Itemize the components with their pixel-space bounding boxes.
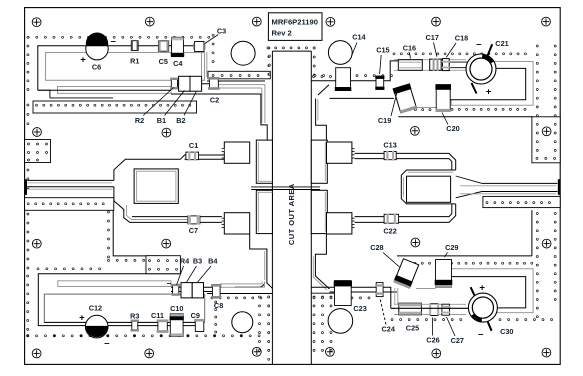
svg-text:C2: C2 [210, 96, 219, 105]
svg-text:C29: C29 [445, 243, 458, 252]
svg-text:C7: C7 [189, 226, 198, 235]
via col left border 2 [27, 104, 29, 106]
capacitor C22 [384, 214, 399, 223]
bead B1 [179, 76, 190, 91]
svg-text:C26: C26 [426, 336, 439, 345]
trace gate bar upper-left [256, 140, 272, 183]
capacitor C4 [172, 37, 184, 56]
trace splitter lower gray [127, 205, 201, 220]
output edge pad [558, 179, 560, 195]
svg-text:R1: R1 [130, 56, 139, 65]
trace block upper-left [224, 142, 249, 163]
cut out area top edge [272, 50, 311, 52]
wire C22 line [355, 216, 449, 218]
capacitor C23 body [335, 281, 352, 306]
tooling hole H20 [542, 348, 551, 357]
svg-text:C22: C22 [383, 226, 396, 235]
wire R2-B1-B2-C2 [171, 83, 209, 85]
svg-text:C12: C12 [89, 304, 102, 313]
capacitor C10 [170, 314, 183, 337]
svg-text:C4: C4 [173, 59, 183, 68]
tooling hole H19 [432, 349, 441, 358]
capacitor C17 [430, 59, 442, 70]
tooling hole H5 [432, 17, 441, 26]
svg-text:–: – [104, 338, 109, 349]
tooling hole H2 [145, 17, 154, 26]
trace block upper-right [327, 142, 352, 163]
tooling hole H9 [411, 126, 420, 135]
trace band C16 row [394, 59, 466, 61]
tooling hole H7 [33, 128, 42, 137]
tooling hole H8 [162, 128, 171, 137]
capacitor C6 [86, 38, 108, 60]
wire C13 corner [449, 153, 456, 170]
capacitor C5 [158, 41, 168, 51]
capacitor C29 [436, 260, 452, 288]
svg-text:B3: B3 [193, 257, 202, 266]
via col right edge 1 [536, 45, 538, 47]
cut out area left edge [271, 51, 273, 364]
capacitor C12 [85, 315, 108, 338]
trace combiner gray [403, 172, 453, 197]
trace block lower-left [224, 213, 249, 234]
trace band C25 row [394, 303, 466, 305]
trace narrow bias line bottom [58, 281, 171, 287]
tooling hole H12 [162, 239, 171, 248]
svg-text:B1: B1 [157, 116, 166, 125]
via dots box right-top [536, 157, 538, 159]
wire C9 up [204, 294, 206, 322]
capacitor C26 [430, 304, 438, 316]
cut out area right edge [310, 51, 312, 364]
svg-text:C21: C21 [495, 39, 508, 48]
trace splitter lower arm [114, 187, 222, 223]
device strap across cutout [251, 186, 320, 188]
via fence rect input-bottom [25, 198, 114, 211]
trace bias loop outer TR [451, 62, 533, 106]
svg-text:C11: C11 [151, 311, 164, 320]
C18 leader [446, 43, 456, 57]
svg-text:+: + [80, 54, 86, 65]
trace bias loop inner BR [450, 277, 526, 308]
via cols center-bottom left [259, 296, 261, 298]
via col cutout-left-top [268, 55, 270, 57]
wire C3 to C2 column [201, 52, 203, 77]
capacitor C28 [393, 258, 419, 289]
svg-text:+: + [79, 313, 85, 324]
svg-text:C13: C13 [383, 140, 396, 149]
trace bottom-left pour [44, 294, 204, 322]
C24 leader [380, 299, 386, 325]
C26 leader [432, 318, 434, 336]
capacitor C3 [195, 42, 204, 52]
via cols center-bottom right [313, 296, 315, 298]
svg-text:C8: C8 [214, 301, 223, 310]
fence box right-top [532, 117, 560, 163]
svg-text:B2: B2 [176, 116, 185, 125]
via row top-left [27, 36, 29, 38]
tooling hole H17 [252, 347, 261, 356]
via row center-top [267, 47, 269, 49]
tooling hole H10 [542, 127, 551, 136]
trace gate bar lower-left [256, 190, 272, 233]
svg-text:R3: R3 [130, 311, 139, 320]
trace output taper [456, 176, 482, 198]
capacitor C24 [376, 283, 383, 297]
capacitor row wire bottom-right [391, 307, 469, 309]
trace C19-C20 gray [412, 107, 436, 109]
C3 leader [205, 35, 219, 44]
part number box [268, 13, 322, 41]
via col right edge 2 [554, 45, 556, 47]
wire C24 down [383, 287, 391, 308]
svg-text:–: – [476, 39, 481, 50]
trace gate pad lower-left leadin [264, 251, 266, 280]
svg-text:MRF6P21190: MRF6P21190 [272, 17, 318, 26]
capacitor C21 [466, 54, 496, 84]
wire top-right gate [310, 80, 312, 82]
tooling hole H18 [326, 347, 335, 356]
wire bias pad to C19 [330, 97, 395, 99]
svg-text:C15: C15 [376, 46, 389, 55]
C27 leader [447, 317, 456, 336]
via row right of C14 [314, 75, 316, 77]
trace input line [27, 179, 114, 181]
trace splitter hole [134, 169, 178, 204]
mount circle bottom-left [232, 312, 253, 333]
trace combiner ring inner [407, 176, 451, 202]
svg-text:C19: C19 [378, 116, 391, 125]
svg-text:+: + [486, 86, 492, 97]
capacitor C14 body [336, 68, 351, 89]
via col left border [27, 36, 29, 38]
capacitor C15 [376, 76, 384, 89]
resistor R3 [132, 321, 138, 331]
svg-text:C17: C17 [426, 33, 439, 42]
tooling hole H15 [32, 349, 41, 358]
via row below C20 [451, 108, 453, 110]
tooling hole H1 [32, 18, 41, 27]
via row center-bottom right [313, 297, 315, 299]
capacitor C9 [195, 320, 204, 332]
via col left lower [27, 169, 29, 171]
ground line below C20 row [398, 116, 533, 118]
svg-text:C30: C30 [500, 327, 513, 336]
via circle-box bottom-left [215, 301, 217, 303]
B3 leader [187, 266, 197, 282]
mount circle top-left [231, 41, 255, 65]
trace drain bar upper-right [311, 140, 327, 183]
trace pad lower-right [315, 234, 329, 289]
trace gate pad upper-right [316, 99, 327, 141]
resistor R4 [173, 285, 179, 295]
svg-text:R4: R4 [180, 257, 190, 266]
capacitor C19 [393, 83, 418, 113]
bead B4 [192, 283, 203, 298]
svg-text:–: – [478, 329, 483, 340]
trace C8 band [220, 283, 262, 285]
via row bottom-left [27, 335, 29, 337]
tooling hole H14 [542, 239, 551, 248]
svg-text:C16: C16 [403, 43, 416, 52]
capacitor C27 [442, 304, 450, 315]
via fence box left-mid [25, 140, 51, 163]
via row bottom splitter fence [37, 268, 39, 270]
wire C14 row [311, 80, 335, 82]
resistor R2 [171, 79, 177, 89]
B1 leader [165, 91, 185, 116]
tooling hole H13 [411, 238, 420, 247]
via col right edge lower 2 [554, 213, 556, 215]
svg-text:R2: R2 [135, 116, 144, 125]
svg-text:C5: C5 [159, 57, 168, 66]
svg-text:Rev 2: Rev 2 [272, 28, 292, 37]
ground boundary bottom-left [113, 210, 160, 256]
trace narrow gate bias line [58, 87, 172, 94]
svg-text:C23: C23 [353, 304, 366, 313]
wire in narrow trace bottom [167, 283, 171, 285]
node step under C6 area [38, 90, 113, 98]
capacitor C14 circle [328, 41, 352, 65]
capacitor C25 [399, 303, 422, 315]
R4 leader [177, 266, 184, 285]
bead B2 [190, 76, 202, 91]
svg-text:C27: C27 [451, 336, 464, 345]
ground boundary right-bottom [311, 292, 336, 294]
R2 leader [143, 88, 173, 116]
trace output gray [460, 185, 556, 187]
via row bottom-right low [391, 319, 393, 321]
C29 leader [445, 253, 448, 258]
capacitor C2 [209, 78, 218, 89]
wire C22 corner [449, 204, 456, 222]
svg-text:C9: C9 [191, 311, 200, 320]
wire C23 row [311, 286, 334, 288]
C15 leader [380, 55, 382, 74]
wire R4-B3-B4 [171, 286, 212, 288]
wire C18 to C21 [449, 61, 467, 63]
via row pads top [313, 76, 315, 78]
capacitor C16 [398, 60, 422, 71]
C28 leader [383, 253, 400, 268]
via col left bottom [27, 275, 29, 277]
svg-text:C18: C18 [455, 34, 468, 43]
capacitor C30 [468, 293, 497, 322]
svg-text:C20: C20 [446, 124, 459, 133]
via box b-row-bottom [146, 256, 180, 274]
C20 leader [442, 113, 448, 125]
via col right edge lower 1 [536, 213, 538, 215]
wire top-left bias feed [38, 46, 195, 90]
tooling hole H6 [542, 17, 551, 26]
wire bottom row [138, 325, 195, 327]
C16 leader [409, 53, 410, 59]
via fence rect top-left [33, 101, 197, 113]
trace top-left pour [46, 53, 205, 81]
trace gate band [218, 84, 265, 86]
fence box pads top [208, 71, 270, 79]
wire C13 line [355, 152, 449, 154]
C14 leader [352, 43, 358, 57]
via row fence top-left [36, 104, 38, 106]
svg-text:C14: C14 [352, 32, 366, 41]
wire in narrow trace [38, 89, 171, 91]
trace splitter upper arm [114, 155, 224, 180]
trace bias loop inner TR [450, 68, 526, 99]
via col center-left split [108, 211, 110, 213]
svg-text:CUT OUT AREA: CUT OUT AREA [287, 183, 296, 245]
trace C28-C29 gray [416, 288, 436, 290]
via col left mid-low [27, 213, 29, 215]
svg-text:C25: C25 [406, 324, 419, 333]
bead B3 [181, 283, 192, 298]
capacitor C7 [188, 216, 200, 224]
svg-text:+: + [479, 282, 485, 293]
svg-text:C10: C10 [170, 304, 183, 313]
trace lower pad left [250, 234, 273, 288]
tooling hole H4 [326, 17, 335, 26]
trace output line [482, 182, 557, 184]
wire C15 up [384, 61, 399, 81]
tooling hole H11 [32, 239, 41, 248]
fence rect right-mid [483, 196, 560, 207]
wire gate feed top [207, 80, 265, 82]
via col cutout-right-top [313, 47, 315, 49]
svg-text:C6: C6 [92, 63, 101, 72]
svg-text:C28: C28 [370, 243, 383, 252]
capacitor C20 [436, 85, 450, 112]
ground line above C29 row [397, 255, 532, 257]
input edge pad [25, 179, 27, 195]
wire bottom-left bias feed [38, 274, 180, 326]
capacitor C8 [212, 285, 220, 298]
svg-text:B4: B4 [208, 257, 218, 266]
via row above C16 [393, 53, 395, 55]
trace bias loop outer BR [451, 269, 533, 313]
trace drain bar lower-right [311, 190, 327, 233]
trace combiner ring outer [401, 170, 455, 204]
wire pad to C28 [330, 291, 398, 293]
svg-text:C3: C3 [217, 26, 226, 35]
B2 leader [184, 91, 197, 116]
via row bottom-right mid [414, 262, 416, 264]
svg-text:–: – [111, 36, 116, 47]
capacitor C1 [186, 152, 199, 160]
via dots right-mid [486, 202, 488, 204]
via circle-box top-left [212, 34, 214, 36]
tooling hole H3 [252, 17, 261, 26]
C17 leader [434, 43, 437, 57]
capacitor C23 circle [328, 309, 353, 334]
B4 leader [198, 266, 212, 282]
trace block lower-right [327, 213, 352, 234]
trace gate pad upper-left [171, 94, 267, 140]
trace input gray [27, 182, 112, 184]
svg-text:C24: C24 [382, 324, 396, 333]
resistor R1 [131, 41, 138, 51]
C19 leader [391, 93, 397, 117]
capacitor C13 [384, 152, 396, 160]
wire C8 feed bottom [207, 293, 272, 295]
svg-text:C1: C1 [189, 141, 198, 150]
capacitor C18 [442, 59, 449, 71]
capacitor C11 [158, 320, 167, 332]
tooling hole H16 [145, 349, 154, 358]
